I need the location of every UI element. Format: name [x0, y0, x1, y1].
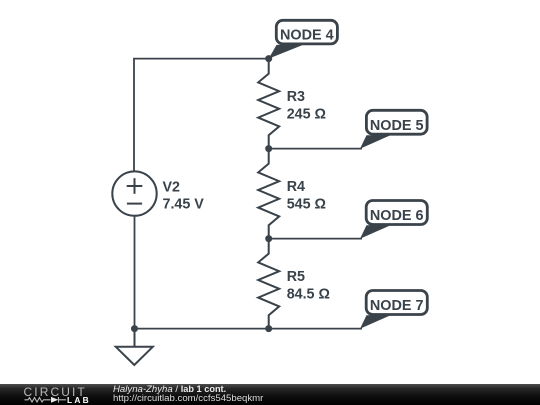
- junction node 4: [265, 55, 272, 62]
- svg-text:84.5 Ω: 84.5 Ω: [287, 287, 330, 303]
- label R3 value: [287, 89, 326, 123]
- svg-text:7.45 V: 7.45 V: [163, 197, 205, 213]
- junction ground node: [131, 325, 138, 332]
- wire top horizontal: [134, 59, 269, 172]
- label V2 value: [163, 179, 205, 212]
- svg-text:245 Ω: 245 Ω: [287, 107, 326, 123]
- svg-text:LAB: LAB: [67, 395, 91, 405]
- wire V2 bottom to ground node: [134, 216, 136, 329]
- node NODE 5 callout: [360, 110, 427, 149]
- node NODE 6 callout: [360, 201, 427, 239]
- svg-text:R3: R3: [287, 89, 305, 105]
- node NODE 4 callout: [269, 20, 338, 58]
- wire node5 branch: [269, 148, 362, 150]
- wire bottom horizontal: [135, 328, 363, 330]
- resistor R3: [258, 59, 279, 149]
- node NODE 7 callout: [360, 291, 427, 329]
- svg-text:V2: V2: [163, 179, 181, 195]
- label R4 value: [287, 179, 326, 213]
- svg-text:NODE 7: NODE 7: [370, 298, 424, 314]
- ground: [116, 329, 153, 365]
- svg-text:R5: R5: [287, 269, 305, 285]
- junction node 5: [265, 145, 272, 152]
- resistor R5: [258, 239, 279, 329]
- voltage source V2: [112, 171, 156, 215]
- svg-text:R4: R4: [287, 179, 305, 195]
- footer bar: [0, 384, 540, 405]
- svg-text:545 Ω: 545 Ω: [287, 197, 326, 213]
- svg-text:NODE 4: NODE 4: [280, 28, 334, 44]
- CircuitLab logo: [0, 384, 100, 405]
- label R5 value: [287, 269, 330, 303]
- footer credits: [113, 385, 263, 403]
- svg-text:NODE 5: NODE 5: [370, 118, 424, 134]
- svg-text:NODE 6: NODE 6: [370, 208, 424, 224]
- resistor R4: [258, 149, 279, 239]
- junction node 6: [265, 235, 272, 242]
- junction node 7: [265, 325, 272, 332]
- wire node6 branch: [269, 238, 362, 240]
